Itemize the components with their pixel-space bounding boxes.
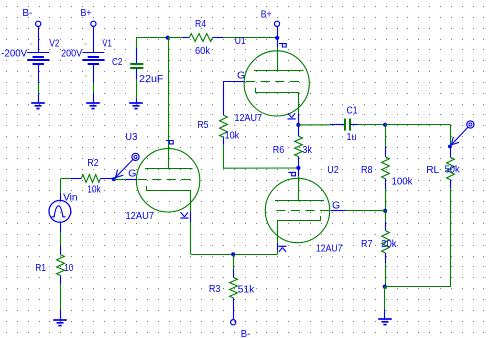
wire xyxy=(168,37,183,39)
wire xyxy=(93,64,95,82)
wire xyxy=(60,284,62,310)
wire xyxy=(223,145,225,168)
resistor R3 xyxy=(209,269,255,320)
svg-text:B-: B- xyxy=(22,7,32,19)
svg-text:200V: 200V xyxy=(61,48,82,60)
wire xyxy=(38,27,40,53)
probe at output xyxy=(451,121,474,145)
wire xyxy=(345,210,385,212)
svg-text:3k: 3k xyxy=(302,144,312,156)
resistor R6 xyxy=(273,125,313,168)
svg-text:10k: 10k xyxy=(225,129,240,141)
svg-text:12AU7: 12AU7 xyxy=(316,243,343,255)
wire xyxy=(190,212,192,223)
pin label P xyxy=(288,172,295,175)
svg-text:R6: R6 xyxy=(273,144,285,156)
wire xyxy=(223,82,245,116)
resistor R2 xyxy=(71,157,114,196)
wire xyxy=(126,179,137,181)
ground xyxy=(31,103,45,109)
wire xyxy=(385,286,451,288)
wire xyxy=(358,124,385,126)
svg-text:51k: 51k xyxy=(238,284,255,296)
node junction xyxy=(383,209,387,213)
svg-text:R1: R1 xyxy=(35,262,46,274)
svg-text:U2: U2 xyxy=(327,164,339,176)
wire xyxy=(93,93,95,103)
pin label G xyxy=(128,168,136,180)
wire xyxy=(61,178,71,180)
wire xyxy=(38,93,40,103)
wire xyxy=(384,309,386,319)
svg-text:G: G xyxy=(332,200,340,212)
svg-text:R5: R5 xyxy=(197,119,208,131)
node junction xyxy=(296,123,300,127)
wire xyxy=(277,250,279,254)
source Vin xyxy=(49,192,78,223)
wire xyxy=(137,37,168,39)
svg-text:B+: B+ xyxy=(81,7,92,19)
wire xyxy=(114,179,126,181)
svg-text:RL: RL xyxy=(426,164,439,176)
wire xyxy=(298,114,300,125)
wire xyxy=(191,254,278,256)
svg-text:60k: 60k xyxy=(195,45,211,57)
pin label K xyxy=(180,212,188,218)
wire xyxy=(277,27,279,38)
terminal B+ right xyxy=(261,8,280,26)
svg-text:R8: R8 xyxy=(361,164,373,176)
terminal B+ top left xyxy=(81,7,97,26)
wire xyxy=(385,263,387,287)
svg-text:50k: 50k xyxy=(445,164,461,176)
pin label K xyxy=(288,113,296,119)
wire xyxy=(38,83,40,94)
pin label P xyxy=(279,44,286,47)
terminal B- top xyxy=(22,7,40,26)
ground xyxy=(129,103,143,109)
svg-text:22uF: 22uF xyxy=(139,73,164,85)
wire xyxy=(331,210,345,212)
svg-text:U3: U3 xyxy=(125,131,137,143)
svg-text:G: G xyxy=(128,168,136,180)
triode U1 xyxy=(235,35,310,124)
resistor R1 xyxy=(35,246,73,284)
ground xyxy=(53,320,67,326)
wire xyxy=(190,222,192,254)
wire xyxy=(384,287,386,310)
wire xyxy=(385,189,387,211)
wire xyxy=(277,243,279,250)
svg-text:V1: V1 xyxy=(102,38,112,50)
svg-text:10: 10 xyxy=(64,262,73,274)
svg-text:R2: R2 xyxy=(87,157,99,169)
wire xyxy=(450,188,452,287)
pin label G xyxy=(332,200,340,212)
pin label K xyxy=(278,246,286,252)
svg-text:R3: R3 xyxy=(209,283,221,295)
wire xyxy=(93,83,95,94)
wire xyxy=(60,222,62,233)
wire xyxy=(136,37,138,48)
svg-text:20k: 20k xyxy=(381,238,397,250)
resistor R8 xyxy=(361,146,413,189)
resistor RL xyxy=(426,147,460,189)
wire xyxy=(60,310,62,321)
svg-text:C2: C2 xyxy=(112,56,123,68)
svg-text:1u: 1u xyxy=(347,131,357,143)
svg-text:R7: R7 xyxy=(361,238,373,250)
svg-text:G: G xyxy=(237,69,245,81)
resistor R5 xyxy=(197,115,239,145)
capacitor C1 xyxy=(330,104,358,142)
wire xyxy=(38,64,40,82)
wire xyxy=(60,232,62,245)
svg-text:U1: U1 xyxy=(235,35,246,47)
svg-text:C1: C1 xyxy=(347,104,358,116)
pin label P xyxy=(166,141,173,144)
svg-text:12AU7: 12AU7 xyxy=(126,210,155,222)
wire xyxy=(136,79,138,98)
wire xyxy=(385,125,387,146)
wire xyxy=(233,254,235,269)
pin label G xyxy=(237,69,245,81)
ground xyxy=(86,103,100,109)
wire xyxy=(298,168,300,176)
wire xyxy=(298,124,330,126)
battery V2 xyxy=(1,38,59,77)
wire xyxy=(277,38,279,47)
wire xyxy=(60,179,62,193)
wire xyxy=(168,38,170,169)
svg-text:R4: R4 xyxy=(195,18,206,30)
wire xyxy=(385,124,451,126)
node junction xyxy=(448,145,452,149)
terminal B- bottom xyxy=(231,320,251,338)
svg-text:10k: 10k xyxy=(87,184,101,196)
svg-text:100k: 100k xyxy=(392,176,414,188)
wire xyxy=(223,167,298,169)
ground xyxy=(378,319,392,325)
svg-text:Vin: Vin xyxy=(63,192,78,204)
resistor R7 xyxy=(361,222,397,263)
node junction xyxy=(383,123,387,127)
wire xyxy=(450,125,452,147)
node junction xyxy=(231,252,235,256)
node junction xyxy=(275,36,279,40)
resistor R4 xyxy=(182,18,223,57)
svg-text:12AU7: 12AU7 xyxy=(235,112,263,124)
svg-text:-200V: -200V xyxy=(1,48,27,60)
node junction xyxy=(383,285,387,289)
capacitor C2 xyxy=(112,48,164,85)
svg-text:B-: B- xyxy=(241,328,251,338)
svg-text:V2: V2 xyxy=(49,38,59,50)
wire xyxy=(224,37,278,39)
battery V1 xyxy=(61,38,112,77)
node junction xyxy=(166,36,170,40)
wire xyxy=(298,176,300,200)
svg-text:B+: B+ xyxy=(261,8,272,20)
probe at U3 grid xyxy=(115,153,139,177)
triode U2 xyxy=(265,164,342,255)
triode U3 xyxy=(125,131,200,222)
wire xyxy=(93,27,95,53)
wire xyxy=(136,98,138,103)
wire xyxy=(385,211,387,222)
node junction xyxy=(296,166,300,170)
node junction xyxy=(112,177,116,181)
